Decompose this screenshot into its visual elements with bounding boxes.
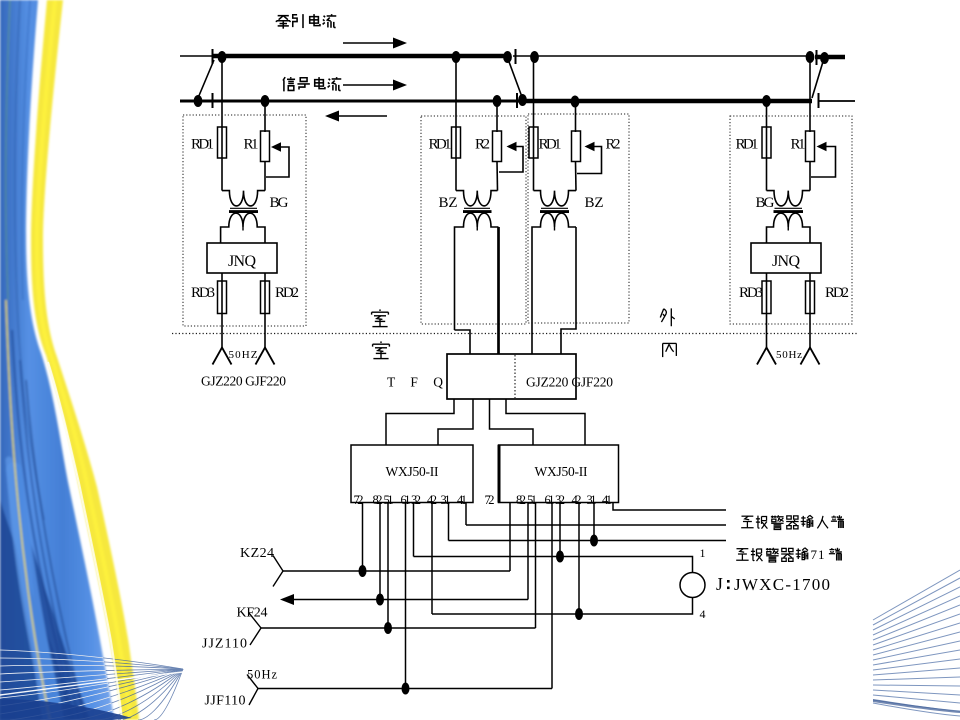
junction: lower rail at R1 box1 [261,95,270,107]
svg-text:RD1: RD1 [539,137,562,153]
junction: top rail at RD1 box3 [530,51,539,63]
junction: U1 pin72 / KZ24 bus [359,565,367,577]
transformer BZ (box2) primary [456,191,498,206]
wire: lower rail to R2 box3 [575,104,577,132]
wire: U2 pin 32 drop [559,503,561,557]
svg-text:R1: R1 [244,137,259,153]
wire: right rail jumper diagonal [812,60,824,98]
wiper arrow into R1 (box4) [817,142,827,152]
wire: U2 pin 61 drop [551,503,553,689]
label: 内 (indoor right) [663,343,677,357]
wire: U1 pin 41 drop to alarm bus 2 [465,503,467,526]
svg-text:RD3: RD3 [191,285,215,301]
TFQ box inner dotted divider [514,355,516,398]
svg-text:51: 51 [527,493,537,507]
svg-text:42: 42 [427,493,437,507]
50HZ source terminal fork right (box1) [256,348,275,365]
svg-text:RD2: RD2 [275,285,299,301]
transformer BZ (box3) primary [534,191,577,206]
junction: top rail at RD1 box2 [452,51,461,63]
junction: U1 pin82 / arrow bus [376,594,384,606]
wire: box3 secondary right lead jog to TFQ [561,227,576,354]
svg-text:R2: R2 [606,137,621,153]
wire: top rail to RD1 box3 [533,59,535,128]
transformer BG (box1) core [230,207,257,209]
wire: KZ24 bus [283,570,510,572]
junction: lower rail left jumper [194,95,203,107]
svg-text:50Hz: 50Hz [776,349,802,361]
svg-text:GJZ220 GJF220: GJZ220 GJF220 [201,374,286,389]
wire: alarm bus 2 from U1 pin 41 [466,524,726,526]
svg-text:KF24: KF24 [237,606,268,621]
wire: lower rail right thick section [522,99,812,104]
relay box U1 WXJ50-II (left) [351,445,473,503]
svg-text:32: 32 [555,493,565,507]
svg-text:82: 82 [373,493,383,507]
wire: relay J coil bus from pin 32 [414,557,693,573]
wire: U2 pin 82 drop [527,503,529,600]
svg-text:51: 51 [384,493,394,507]
fuse RD1 (box3) [533,128,535,191]
wire: top rail (traction) thick section [213,54,509,59]
wire: middle rail jumper diagonal [508,59,522,97]
junction: lower rail at R2 box2 [493,95,502,107]
svg-text:82: 82 [516,493,526,507]
arrow: signal return direction (left) [334,115,387,117]
enclosure box 4 (right track unit) [730,116,852,324]
wire: lower rail to R2 box2 [496,103,498,132]
wire: U1 pin 31 drop to alarm bus 3 [448,503,450,541]
svg-text:BG: BG [270,195,289,211]
wire drops from rails into track-side units [222,59,810,132]
svg-text:RD3: RD3 [739,285,763,301]
svg-text:41: 41 [602,493,612,507]
svg-text:31: 31 [587,493,597,507]
wire: lower rail (signal) left section [180,100,520,103]
junction dots on rails [194,51,829,108]
wire: lower rail to R1 box1 [264,103,266,132]
wiper arrow into R2 (box3) [585,142,595,152]
label: 至报警器输入端 [741,515,844,529]
wire: top rail to RD1 box2 [455,59,457,128]
transformer BZ (box2) secondary [455,213,499,330]
yellow stripe [31,0,139,720]
wire: U1 pin 32 drop to relay J bus [413,503,415,557]
wire: KF24/JJZ110 bus [261,627,536,629]
wire: lower rail right stub [819,100,855,102]
svg-text:RD1: RD1 [736,137,759,153]
svg-text:BG: BG [756,195,775,211]
wire: U1 pin 72 drop [362,503,364,572]
wire: lower rail to RD1 box4 [766,103,768,128]
transformer BZ (box3) core [541,207,568,209]
dark navy lower portion [0,500,74,720]
junction: U2 pin32 / relay coil bus [556,551,564,563]
relay unit JNQ (box1) [207,243,277,273]
label: 至报警器输 71 端 [736,548,842,562]
wire: U2 pin 41 drop to alarm bus 1 [613,503,726,511]
svg-text:RD1: RD1 [191,137,214,153]
svg-text:RD1: RD1 [429,137,452,153]
wire: U1 pin 82 drop [379,503,381,600]
label: 室 (outdoor left) [372,309,389,326]
junction: lower rail at RD1 box4 [762,95,771,107]
fuse RD1 (box1) [221,128,223,191]
wiper arrow into R1 (box1) [271,142,281,152]
svg-text:32: 32 [411,493,421,507]
svg-text:T F Q: T F Q [387,375,449,390]
svg-text:61: 61 [401,493,411,507]
svg-text:71: 71 [811,547,825,562]
wire: U2 pin 31 drop [593,503,595,541]
50HZ source terminal fork left (box1) [213,348,232,365]
svg-text:42: 42 [572,493,582,507]
relay J coil JWXC-1700 [680,573,705,598]
contact symbol 50Hz/JJF110 [247,675,258,706]
wire: box2 secondary right lead (thick) to TFQ [497,227,500,354]
junction: U1 pin51 / KF24 bus [384,622,392,634]
junction: lower rail at R2 box3 [571,96,580,108]
label: 牵引电流 heading [276,14,336,29]
fuse RD1 (box4) [766,128,768,191]
transformer BG (box4) secondary [767,213,811,243]
svg-text:J: J [716,574,723,594]
svg-text:JJZ110: JJZ110 [202,637,247,652]
junction: lower rail middle jumper [518,94,527,106]
wire: top rail thin right section [513,55,813,57]
svg-text:BZ: BZ [585,195,604,211]
contact symbol KZ24 [273,556,283,587]
arrow: signal current direction [343,84,397,86]
insulated joint tick, lower rail right [818,93,820,108]
fuse RD2 (box1) [264,273,266,348]
arrow: traction current direction [343,42,397,44]
transformer BG (box4) primary [767,191,811,206]
wire: U1 pin 51 drop [387,503,389,629]
fuse RD2 (box4) [809,273,811,348]
svg-text:61: 61 [545,493,555,507]
svg-text:JWXC-1700: JWXC-1700 [734,575,830,594]
wiper arrow into R2 (box2) [507,142,517,152]
fuse RD1 (box2) [455,128,457,191]
50HZ source terminal fork right (box4) [801,348,820,365]
transformer BG (box4) core [775,207,803,209]
wire: KF24 arrow bus [290,599,528,601]
wire: alarm bus 3 from U1 pin 31 [449,540,727,542]
dashed unit enclosures [172,114,858,334]
resistor R1 (box1) [261,131,270,162]
wire: top rail thin left leader [180,55,213,57]
junction dots on lower wiring [359,535,599,695]
wire: U2 pin 72 drop [509,503,511,572]
50HZ source terminal fork left (box4) [757,348,776,365]
insulated joint tick, top rail left [212,49,214,64]
junction: U2 pin42 / relay return bus [575,608,583,620]
svg-text:4: 4 [700,607,706,621]
svg-text:WXJ50-II: WXJ50-II [535,464,589,479]
svg-text:JNQ: JNQ [772,253,800,270]
terminal block TFQ box [447,354,576,399]
bottom-left fan of fine lines [0,650,183,720]
svg-text:JJF110: JJF110 [205,694,246,709]
wire: U2 pin 51 drop [535,503,537,629]
indoor/outdoor dotted separator line [172,333,858,335]
fuse RD3 (box4) [766,273,768,348]
relay J pin numbers and bottom labels [202,546,830,709]
transformer BG (box1) secondary [221,213,265,243]
pin numbers U1 [354,493,468,507]
junction: top rail right jumper [820,52,829,64]
insulated joint tick, top rail right [816,50,818,65]
wire: top rail to R1 box4 [809,59,811,132]
wire: U1 pin 61 drop [405,503,407,689]
wire: 50Hz/JJF110 bus [258,688,552,690]
svg-text:72: 72 [354,493,364,507]
svg-text:KZ24: KZ24 [240,546,274,561]
svg-text:41: 41 [457,493,467,507]
junction: U2 pin31 / alarm bus 3 [590,535,598,547]
relay box U2 thick left edge [498,445,501,503]
arrowhead on KF24 arrow bus [280,594,294,605]
wire: TFQ output 2 to WXJ50 left [438,399,473,445]
wire: TFQ output 1 to WXJ50 left [386,399,454,445]
wire: left rail jumper diagonal [198,60,214,98]
pin numbers U2 [485,493,613,507]
wire: U2 pin 42 drop [578,503,580,615]
relay unit JNQ (box4) [751,243,821,273]
svg-text:50HZ: 50HZ [229,349,258,361]
fuse RD3 (box1) [221,273,223,348]
fine internal streaks [6,0,10,300]
junction: top rail middle jumper [503,51,512,63]
wire: U1 pin 42 drop to relay J return bus [431,503,433,615]
svg-text:72: 72 [485,493,495,507]
svg-text:R1: R1 [791,137,806,153]
svg-text:WXJ50-II: WXJ50-II [386,464,440,479]
svg-text:1: 1 [700,546,706,560]
insulated joint tick, lower rail middle [516,93,518,108]
wire: TFQ output 4 to WXJ50 right [506,399,585,445]
resistor R2 (box2) [493,131,502,162]
junction: U1 pin61 / 50Hz bus [402,683,410,695]
enclosure box 3 (middle-right track unit) [528,114,629,323]
svg-text:RD2: RD2 [825,285,849,301]
relay box U2 WXJ50-II (right) [499,445,619,503]
arrows at top [325,38,407,122]
transformer BZ (box3) secondary [532,213,576,354]
svg-text:GJZ220 GJF220: GJZ220 GJF220 [526,375,613,390]
transformer BG (box1) primary [222,191,265,206]
bright core stripe in lower band [14,470,56,720]
wire: TFQ output 3 to WXJ50 right [490,399,534,445]
svg-text:JNQ: JNQ [228,253,256,270]
label: 信号电流 heading [283,77,341,91]
svg-text:BZ: BZ [439,195,458,211]
insulated joint tick, lower rail left [212,93,214,108]
resistor R2 (box3) [572,131,581,162]
svg-text:50Hz: 50Hz [247,668,277,682]
contact symbol KF24/JJZ110 [249,613,261,645]
wire: top rail right thick stub [815,55,845,60]
svg-text:31: 31 [441,493,451,507]
wire: relay J return bus to pin 42 [432,598,693,615]
enclosure box 2 (middle-left track unit) [421,116,526,324]
enclosure box 1 (left track unit) [183,115,306,326]
resistor R1 (box4) [806,131,815,162]
wire: box2 secondary left lead jog to TFQ [455,330,471,354]
junction: top rail at RD1 box1 [218,51,227,63]
svg-text:R2: R2 [475,137,490,153]
junction: top rail right at R1 box4 [806,51,815,63]
wire: top rail to RD1 box1 [221,59,223,128]
transformer BZ (box2) core [464,207,490,209]
label: 室 (indoor left) [373,341,390,358]
insulated joint tick, top rail middle [515,49,517,64]
label: 外 (outdoor right) [660,308,674,326]
